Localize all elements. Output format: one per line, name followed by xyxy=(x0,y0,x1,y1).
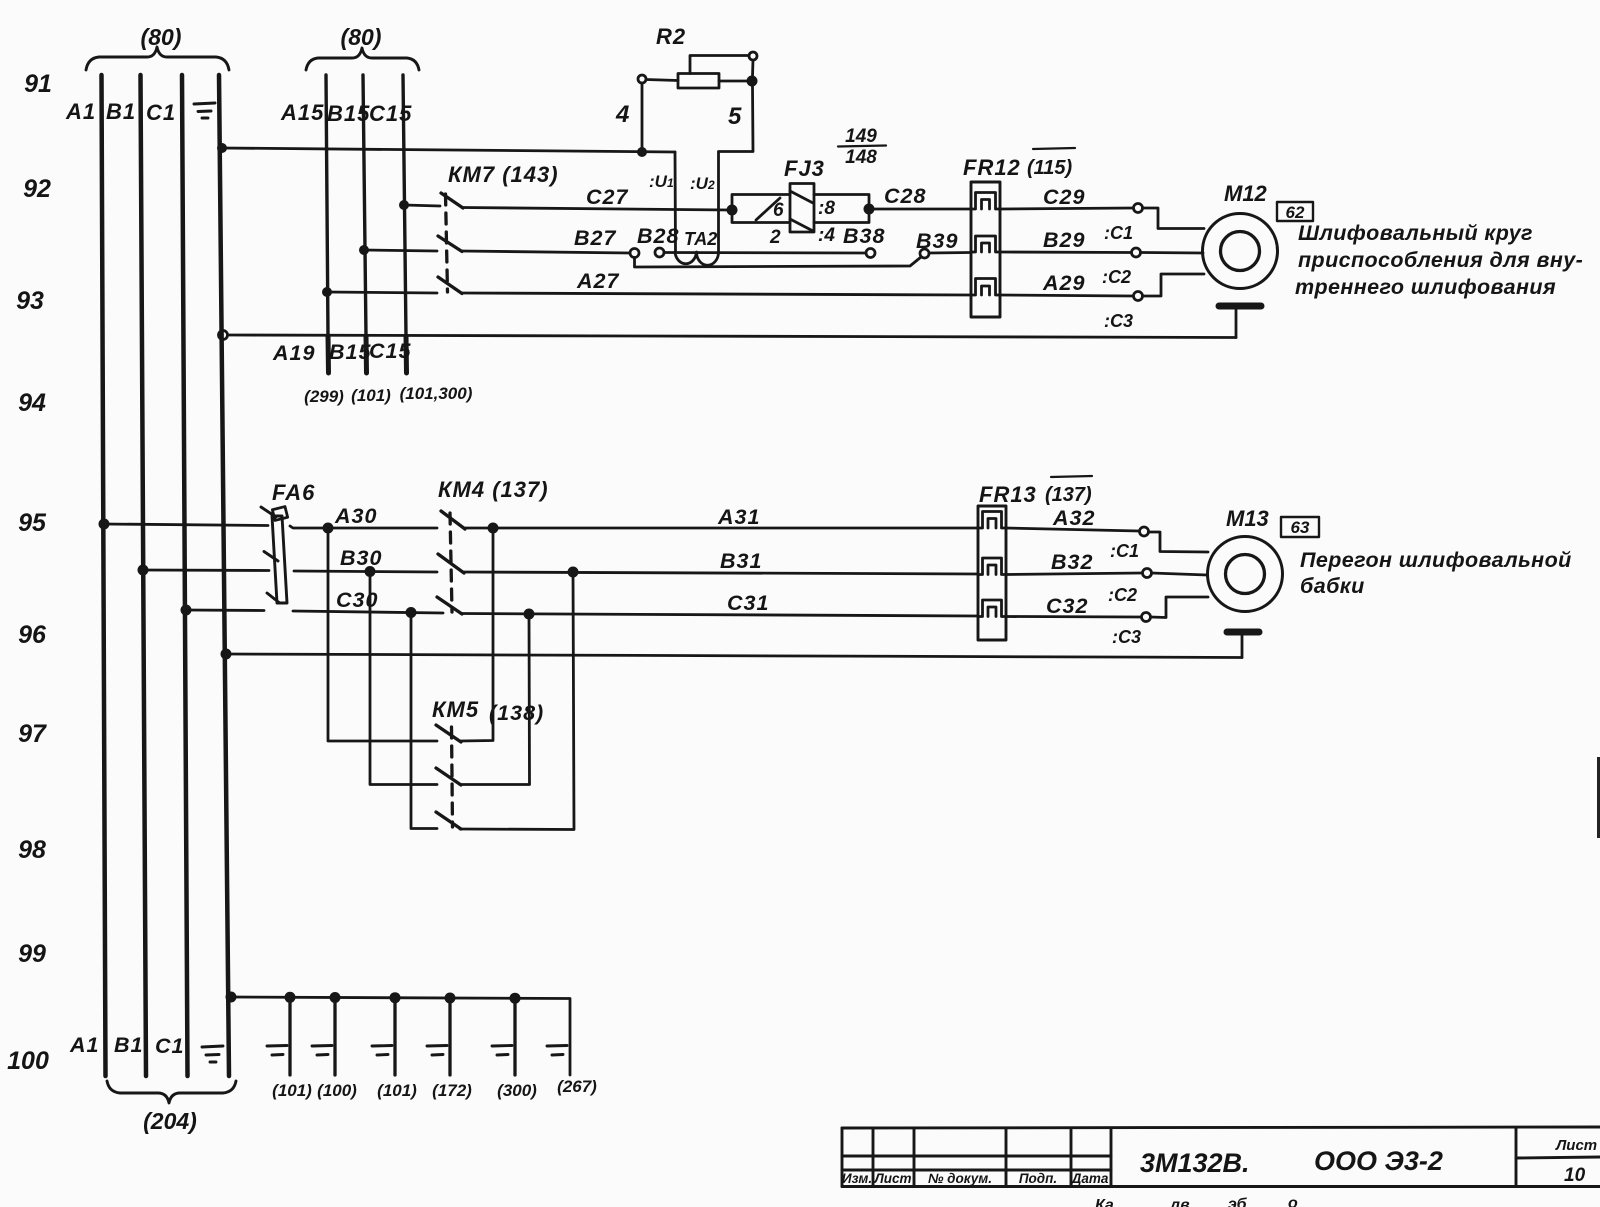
svg-text:98: 98 xyxy=(18,836,46,864)
svg-text:B1: B1 xyxy=(106,99,136,124)
bus B1 xyxy=(141,75,147,1076)
svg-text::8: :8 xyxy=(818,198,835,219)
wire C31 xyxy=(461,614,978,617)
svg-text:92: 92 xyxy=(23,175,51,203)
wire C15 to KM7 xyxy=(404,205,440,206)
svg-text:Изм.: Изм. xyxy=(842,1171,872,1186)
node junction at terminal 4 riser xyxy=(637,147,647,157)
svg-text:B27: B27 xyxy=(574,226,616,250)
title block frame xyxy=(842,1127,1600,1187)
terminal circle B27 end xyxy=(630,249,639,258)
node A30 tap for KM5 xyxy=(323,523,334,534)
ground stub (172) xyxy=(445,993,456,1004)
wire A30 xyxy=(290,526,437,528)
svg-text:R2: R2 xyxy=(656,24,686,49)
wire to M12 C1 xyxy=(1143,208,1205,229)
node A1 tap xyxy=(99,519,110,530)
wire C29 xyxy=(1000,208,1133,209)
wire terminal4 to R2 xyxy=(646,80,678,81)
motor M12 xyxy=(1203,214,1278,289)
resistor R2 xyxy=(678,74,719,89)
svg-text:Лист: Лист xyxy=(1555,1137,1597,1154)
brace (80) over group 2 xyxy=(306,48,419,70)
svg-text:A1: A1 xyxy=(65,99,96,124)
svg-text:(101,300): (101,300) xyxy=(400,384,473,403)
svg-text:C28: C28 xyxy=(884,184,926,208)
svg-text:10: 10 xyxy=(1564,1165,1586,1186)
svg-text:B31: B31 xyxy=(720,549,762,573)
svg-text:о: о xyxy=(1288,1195,1298,1207)
FR13 heater B xyxy=(978,558,1006,575)
svg-text:A19: A19 xyxy=(272,341,315,365)
svg-text:ТА2: ТА2 xyxy=(684,229,717,249)
svg-text:C30: C30 xyxy=(336,588,378,612)
svg-text::U2: :U2 xyxy=(690,174,715,193)
terminal circle M12 C1 xyxy=(1134,204,1143,213)
node FJ3 left xyxy=(727,205,738,216)
svg-text:C1: C1 xyxy=(146,100,176,125)
svg-text:(80): (80) xyxy=(341,24,382,50)
wire KM5-3 to B31 xyxy=(460,572,574,830)
brace (80) over group 1 xyxy=(86,47,229,70)
bus labels A15 B15 C15 xyxy=(280,100,412,126)
breaker FA6 body xyxy=(272,516,287,603)
terminal circle M13 C3 xyxy=(1142,613,1151,622)
ground stub (267) xyxy=(547,1044,567,1047)
terminal circle B28 xyxy=(655,248,664,257)
wire :U2 drop from node 5 xyxy=(719,86,754,252)
wire ground return row 96 xyxy=(226,654,1242,658)
KM4 dashed link xyxy=(450,513,452,612)
callout box 62 xyxy=(1277,202,1313,221)
terminal circle top right of R2 xyxy=(749,52,757,60)
svg-text:(101): (101) xyxy=(377,1081,417,1100)
svg-text::C3: :C3 xyxy=(1104,311,1133,331)
wire B39 to FR12 xyxy=(929,251,971,254)
terminal ring on PE bus row 93 xyxy=(219,331,228,340)
wire :U1 vertical to TA2 xyxy=(674,152,677,252)
wire KM5-2 to C31 xyxy=(460,614,530,785)
svg-text:C15: C15 xyxy=(369,339,411,363)
bus C1 xyxy=(182,75,188,1076)
wire M13 ground stem xyxy=(1241,635,1244,658)
svg-text::C1: :C1 xyxy=(1104,223,1133,243)
wire to M12 C2 xyxy=(1141,251,1204,254)
annotation M13 xyxy=(1300,548,1572,598)
wire B30 drop to KM5 xyxy=(370,572,437,785)
wire A29 xyxy=(1000,295,1133,296)
wire C28 xyxy=(869,208,971,211)
FR13 heater A xyxy=(978,512,1006,529)
wire KM5-1 to A31 xyxy=(460,528,493,741)
wire circle to node 5 xyxy=(751,60,754,76)
node FJ3 right xyxy=(864,204,875,215)
wire B28 to B38 (TA2 primary) xyxy=(664,251,866,254)
node B15 tap xyxy=(359,245,369,255)
KM5 contact 1 blade xyxy=(436,725,461,742)
wire B31 xyxy=(463,572,978,574)
svg-text::C3: :C3 xyxy=(1112,627,1141,647)
svg-text:приспособления для вну-: приспособления для вну- xyxy=(1298,248,1583,272)
svg-text:A15: A15 xyxy=(280,100,324,125)
node A15 tap xyxy=(322,287,332,297)
svg-text:(115): (115) xyxy=(1027,157,1073,179)
wire B29 xyxy=(1000,251,1131,254)
svg-text:A30: A30 xyxy=(334,504,377,528)
ground stub (300) xyxy=(510,993,521,1004)
ground under M13 xyxy=(1227,629,1259,636)
FR13 heater C xyxy=(978,600,1006,617)
svg-text:149: 149 xyxy=(845,126,877,147)
node 5 junction xyxy=(747,76,758,87)
wire C30 xyxy=(293,611,443,613)
svg-text:(138): (138) xyxy=(489,701,544,725)
svg-text:Перегон шлифовальной: Перегон шлифовальной xyxy=(1300,548,1572,572)
svg-text:C31: C31 xyxy=(727,591,769,615)
svg-text:A27: A27 xyxy=(576,269,619,293)
svg-text:Подп.: Подп. xyxy=(1019,1171,1057,1186)
node on PE bus row 96 xyxy=(221,649,232,660)
svg-text:63: 63 xyxy=(1291,518,1310,537)
svg-text:(300): (300) xyxy=(497,1081,537,1100)
svg-text:3М132В.: 3М132В. xyxy=(1140,1148,1250,1178)
svg-text:5: 5 xyxy=(728,103,742,130)
terminal circle M12 C2 xyxy=(1132,248,1141,257)
svg-text:ООО Э3-2: ООО Э3-2 xyxy=(1314,1146,1443,1176)
FR12 heater B xyxy=(971,236,1000,252)
svg-text:4: 4 xyxy=(615,101,629,128)
svg-text:Ка: Ка xyxy=(1095,1197,1114,1207)
FR12 heater C xyxy=(971,193,1000,210)
svg-text:A32: A32 xyxy=(1052,506,1095,530)
svg-text:(172): (172) xyxy=(432,1081,472,1100)
node B31 junction xyxy=(568,567,579,578)
svg-text:C32: C32 xyxy=(1046,594,1088,618)
KM7 contact C blade xyxy=(441,193,463,208)
wire to M13 C2 xyxy=(1152,573,1208,575)
bus C15 xyxy=(403,75,406,336)
svg-text:C29: C29 xyxy=(1043,185,1085,209)
KM4 contact A blade xyxy=(441,511,465,529)
bus A15 xyxy=(326,75,328,336)
sheet refs (299) (101) (101,300) xyxy=(304,384,473,406)
svg-text:(80): (80) xyxy=(141,24,182,50)
callout box 63 xyxy=(1281,517,1319,537)
svg-text:М13: М13 xyxy=(1226,506,1269,531)
KM5 contact 2 blade xyxy=(436,768,461,785)
thermal relay FR12 body xyxy=(971,182,1000,317)
ratio label 149/148 xyxy=(845,126,877,168)
terminal circle M12 C3 xyxy=(1134,292,1143,301)
wire C27 xyxy=(462,208,729,211)
svg-text:B30: B30 xyxy=(340,546,382,570)
wire A30 drop to KM5 xyxy=(328,528,437,741)
svg-text:Дата: Дата xyxy=(1071,1171,1109,1186)
node C1 tap xyxy=(181,605,192,616)
wire ground return row 93 xyxy=(228,335,1237,338)
svg-text:B15: B15 xyxy=(329,340,371,364)
svg-text::C2: :C2 xyxy=(1102,267,1131,287)
svg-text:М12: М12 xyxy=(1224,181,1268,206)
svg-text::4: :4 xyxy=(818,225,835,246)
svg-text:FA6: FA6 xyxy=(272,480,315,505)
wire B15 to KM7 xyxy=(364,250,437,251)
bus labels bottom A1 B1 C1 xyxy=(69,1033,184,1058)
svg-text:2: 2 xyxy=(769,227,781,248)
svg-text:93: 93 xyxy=(16,287,44,315)
terminal circle B38 xyxy=(866,249,875,258)
pin labels 6 :8 2 :4 xyxy=(769,198,835,248)
title block texts xyxy=(842,1171,1109,1186)
svg-text:95: 95 xyxy=(18,509,47,537)
terminal 4 circle xyxy=(638,75,646,83)
wire A27 xyxy=(462,293,971,295)
wire B27 xyxy=(462,251,630,253)
svg-text:96: 96 xyxy=(18,621,47,649)
wire C30 drop to KM5 xyxy=(411,613,437,829)
wire to M12 C3 xyxy=(1143,274,1205,296)
svg-text:№ докум.: № докум. xyxy=(928,1171,992,1186)
wire to M13 C3 xyxy=(1151,597,1209,618)
wire to M13 C1 xyxy=(1149,532,1209,552)
svg-text:FR12: FR12 xyxy=(963,155,1021,180)
ground stub (101) xyxy=(390,992,401,1003)
bus labels A1 B1 C1 xyxy=(65,99,176,125)
terminal circle M13 C2 xyxy=(1143,569,1152,578)
wire row 92 feeder from PE bus xyxy=(222,148,675,152)
svg-text:бабки: бабки xyxy=(1300,574,1365,598)
wire B1 to FA6 xyxy=(143,569,269,572)
thermal relay FR13 body xyxy=(978,506,1006,640)
scan artifact right edge xyxy=(1597,757,1600,838)
svg-text::C1: :C1 xyxy=(1110,541,1139,561)
svg-text:100: 100 xyxy=(7,1047,49,1075)
wire M12 ground stem xyxy=(1235,309,1238,338)
ground symbol bottom of PE bus xyxy=(202,1046,223,1062)
svg-text:A31: A31 xyxy=(717,505,760,529)
wire C1 to FA6 xyxy=(186,609,264,612)
svg-text:(267): (267) xyxy=(557,1077,597,1096)
node on PE bus row 99 xyxy=(226,992,237,1003)
wire C32 xyxy=(1006,615,1141,618)
wire R2 to node 5 xyxy=(719,80,748,83)
svg-text:(101): (101) xyxy=(272,1081,312,1100)
svg-text:91: 91 xyxy=(24,70,52,98)
terminal circle B39 xyxy=(920,249,929,258)
wire B32 xyxy=(1006,573,1142,575)
svg-text:B38: B38 xyxy=(843,224,885,248)
svg-text:(299): (299) xyxy=(304,387,344,406)
KM5 contact 3 blade xyxy=(436,812,461,829)
row numbers 91-100 xyxy=(7,70,52,1075)
annotation M12 xyxy=(1295,221,1583,299)
wire A15 to KM7 xyxy=(327,292,437,293)
svg-text:треннего шлифования: треннего шлифования xyxy=(1295,275,1556,299)
bus B15 xyxy=(363,75,366,336)
svg-text:(204): (204) xyxy=(143,1108,197,1134)
svg-text:C15: C15 xyxy=(369,101,412,126)
node B30 tap for KM5 xyxy=(365,566,376,577)
bus A1 xyxy=(102,75,106,1076)
svg-text:Шлифовальный круг: Шлифовальный круг xyxy=(1298,221,1533,245)
svg-text:(100): (100) xyxy=(317,1081,357,1100)
KM4 contact C blade xyxy=(437,597,462,614)
svg-text:лв: лв xyxy=(1169,1197,1190,1207)
node labels A19 B15 C15 xyxy=(272,339,411,365)
svg-text::U1: :U1 xyxy=(649,172,674,191)
svg-text:94: 94 xyxy=(18,389,46,417)
bus PE xyxy=(219,75,229,1076)
ground under M12 xyxy=(1219,303,1261,310)
svg-text:B39: B39 xyxy=(916,229,958,253)
svg-text:A29: A29 xyxy=(1042,271,1085,295)
ground symbol top of PE bus xyxy=(194,103,215,118)
svg-text:B15: B15 xyxy=(327,101,370,126)
svg-text:B28: B28 xyxy=(637,224,679,248)
svg-text:Лист: Лист xyxy=(873,1171,911,1186)
KM7 contact B blade xyxy=(438,236,462,252)
KM5 dashed link xyxy=(452,727,453,827)
svg-text:62: 62 xyxy=(1286,203,1305,222)
node on PE bus row 92 xyxy=(217,143,227,153)
svg-text:КМ5: КМ5 xyxy=(432,697,479,722)
wire A32 xyxy=(1006,528,1139,531)
KM4 contact B blade xyxy=(438,554,464,573)
terminal circle M13 C1 xyxy=(1140,527,1149,536)
wire A31 xyxy=(464,527,978,530)
node C15 tap xyxy=(399,200,409,210)
node C31 junction xyxy=(524,609,535,620)
svg-text:C1: C1 xyxy=(155,1034,184,1058)
svg-text:B32: B32 xyxy=(1051,550,1093,574)
svg-text:B29: B29 xyxy=(1043,228,1085,252)
svg-text:148: 148 xyxy=(845,147,877,168)
fuse-switch FJ3 body xyxy=(732,195,790,223)
faint cut-off note below title block xyxy=(1095,1195,1298,1207)
node C30 tap for KM5 xyxy=(406,607,417,618)
svg-text:(101): (101) xyxy=(351,386,391,405)
svg-text:97: 97 xyxy=(18,720,47,748)
ground stub (100) xyxy=(330,992,341,1003)
node B1 tap xyxy=(138,565,149,576)
wire jumper loop over R2 xyxy=(690,56,749,74)
svg-text:6: 6 xyxy=(773,200,784,221)
svg-text:B1: B1 xyxy=(114,1033,143,1057)
motor M13 xyxy=(1208,537,1283,612)
svg-text:99: 99 xyxy=(18,940,46,968)
ground stub (101) xyxy=(285,992,296,1003)
wire B30 xyxy=(294,571,437,572)
KM7 dashed link xyxy=(446,194,448,292)
svg-text:A1: A1 xyxy=(69,1033,99,1057)
wire terminal 4 riser xyxy=(641,83,644,152)
wire bypass B27 to B39 xyxy=(635,257,922,267)
node A31 junction xyxy=(488,523,499,534)
brace (204) under group 1 xyxy=(107,1081,236,1103)
svg-text:FЈ3: FЈ3 xyxy=(784,156,825,181)
svg-text:C27: C27 xyxy=(586,185,628,209)
svg-text:КМ7 (143): КМ7 (143) xyxy=(448,162,559,187)
svg-text::C2: :C2 xyxy=(1108,585,1137,605)
svg-text:FR13: FR13 xyxy=(979,482,1037,507)
ground stub labels xyxy=(272,1077,597,1100)
KM7 contact A blade xyxy=(438,277,462,294)
svg-text:КМ4 (137): КМ4 (137) xyxy=(438,477,549,502)
transformer TA2 winding xyxy=(675,252,719,265)
wire ground distribution bus xyxy=(231,997,570,1075)
svg-text:(137): (137) xyxy=(1045,484,1092,506)
wire A1 to FA6 xyxy=(104,524,268,526)
FR12 heater A xyxy=(971,279,1000,296)
svg-text:эб: эб xyxy=(1228,1196,1248,1207)
